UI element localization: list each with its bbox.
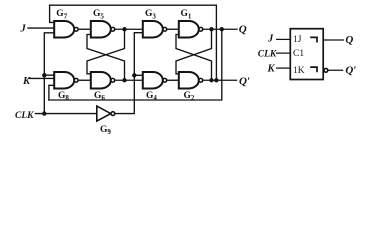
wire Q' output of symbol	[327, 69, 343, 71]
junction dot CLK tap to G8	[42, 73, 46, 77]
JK flip-flop symbol box U1	[290, 29, 323, 80]
wire CLK vertical to G7 lower input and G8 upper input	[44, 33, 55, 114]
svg-text:1J: 1J	[293, 35, 302, 45]
wire top feedback (Q' to G7, runs along top and down right side)	[50, 5, 217, 80]
svg-text:G2: G2	[184, 91, 195, 102]
junction dot CLK line	[42, 111, 46, 115]
wire bottom feedback (Q to G8, runs along bottom and up right side)	[49, 29, 222, 100]
svg-text:J: J	[267, 33, 274, 44]
wire G8 output to G6	[78, 79, 91, 81]
postponed output symbol top	[310, 37, 317, 42]
svg-text:G3: G3	[145, 9, 156, 20]
junction dot Q node to bottom feedback	[220, 27, 224, 31]
junction dot inverted clock tap to G4	[132, 73, 136, 77]
nand gate G6	[91, 72, 111, 89]
svg-text:1K: 1K	[293, 66, 305, 76]
wire cross-couple G5 output down to G6 input	[87, 29, 125, 74]
junction dot G5 output node	[122, 27, 126, 31]
bubble Q' output of symbol	[324, 68, 328, 72]
wire K input to symbol	[276, 67, 290, 69]
inverter G9	[97, 106, 111, 121]
svg-text:Q: Q	[345, 34, 353, 46]
svg-text:G8: G8	[58, 91, 69, 102]
wire top-left corner down to G7 upper input	[50, 5, 55, 22]
svg-text:G9: G9	[100, 125, 111, 136]
wire cross-couple Q' up to G1 input	[176, 35, 212, 81]
nand gate G5	[91, 21, 111, 38]
wire G4 upper input stub from inverted clock	[134, 74, 143, 76]
wire G8 lower input from bottom feedback	[49, 85, 55, 100]
svg-text:Q′: Q′	[345, 65, 356, 77]
svg-text:K: K	[22, 76, 31, 87]
svg-text:Q′: Q′	[239, 76, 250, 88]
wire G8 upper input stub	[44, 74, 54, 76]
junction dot Q' node at X cross	[209, 78, 213, 82]
wire G1 output to Q	[203, 28, 237, 30]
nand gate G7	[54, 21, 74, 38]
svg-text:CLK: CLK	[15, 111, 34, 121]
wire J input to symbol	[276, 38, 290, 40]
wire G5 output to G3	[115, 28, 143, 30]
wire CLK input to symbol	[276, 52, 290, 54]
svg-text:G7: G7	[56, 9, 67, 20]
wire G6 output to G4	[115, 79, 143, 81]
postponed output symbol bottom	[310, 67, 317, 72]
wire CLK horizontal run	[36, 113, 97, 115]
junction dot Q node at X cross	[209, 27, 213, 31]
wire cross-couple G6 output up to G5 input	[87, 35, 125, 81]
wire G2 output to Q'	[203, 79, 237, 81]
svg-text:G5: G5	[93, 9, 104, 20]
svg-text:G1: G1	[181, 9, 192, 20]
svg-text:CLK: CLK	[258, 49, 277, 59]
junction dot G6 output node	[122, 78, 126, 82]
wire G4 output to G2	[167, 79, 179, 81]
junction dot Q' node to top feedback	[214, 78, 218, 82]
wire cross-couple Q down to G2 input	[176, 29, 212, 74]
nand gate G2	[179, 72, 199, 89]
nand gate G4	[143, 72, 163, 89]
svg-text:C1: C1	[293, 49, 304, 59]
svg-text:G6: G6	[94, 91, 105, 102]
svg-text:J: J	[20, 23, 27, 34]
nand gate G3	[143, 21, 163, 38]
wire Q output of symbol	[323, 39, 344, 41]
nand gate G8	[54, 72, 74, 89]
wire G3 output to G1	[167, 28, 179, 30]
wire G7 output to G5	[78, 28, 91, 30]
svg-text:Q: Q	[239, 23, 247, 35]
wire K input	[29, 77, 55, 79]
wire G9 output up to G3 lower input	[115, 33, 143, 114]
svg-text:K: K	[267, 64, 276, 75]
nand gate G1	[179, 21, 199, 38]
svg-text:G4: G4	[146, 91, 157, 102]
wire J input	[28, 27, 55, 29]
